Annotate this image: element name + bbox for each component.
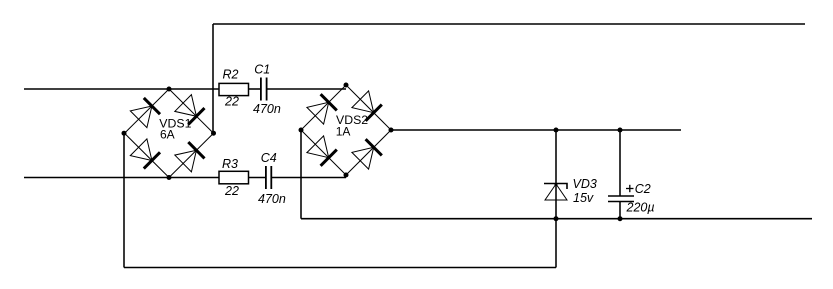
svg-text:22: 22 — [224, 95, 239, 109]
diode VDS1.D4 (bottom to right arm) — [175, 142, 205, 172]
wire: R3 to C4 — [249, 177, 266, 179]
node: VDS2 left (DC minus) — [299, 128, 304, 133]
wire: VD3 branch vertical (output rail to bottom rail) — [555, 130, 557, 268]
svg-text:470n: 470n — [258, 192, 286, 206]
diode VDS1.D3 (left to bottom arm) — [130, 139, 160, 169]
svg-text:6A: 6A — [160, 128, 175, 142]
junction: VD3 bottom on negative rail — [554, 216, 559, 221]
bridge rectifier VDS2 diamond edge: left-bottom — [301, 130, 346, 175]
wire: C2 top lead — [619, 130, 621, 196]
wire: VDS1 left node down — [123, 133, 125, 267]
diode VDS2.D3 (left to bottom arm) — [307, 136, 337, 166]
wire: C1 to VDS2 top node — [267, 88, 346, 90]
bridge rectifier VDS1 diamond edge: left-bottom — [125, 133, 170, 177]
wire: VDS1 top node to R2 — [169, 88, 219, 90]
bridge rectifier VDS2 diamond edge: top-right — [346, 85, 391, 130]
bridge rectifier VDS1 diamond edge: left-top — [125, 89, 170, 133]
diode VDS2.D4 (bottom to right arm) — [352, 139, 382, 169]
wire: drop from top rail to VDS1 right node — [212, 24, 214, 133]
capacitor C4 — [266, 166, 271, 189]
diode VDS1.D2 (top to right arm) — [175, 95, 205, 125]
junction: C2 top on positive rail — [618, 128, 623, 133]
bridge rectifier VDS1 diamond edge: top-right — [169, 89, 214, 133]
wire: R2 to C1 — [249, 88, 261, 90]
resistor R2 — [219, 83, 249, 95]
svg-text:1A: 1A — [336, 125, 351, 139]
wire: VDS1 bottom node to R3 — [169, 177, 219, 179]
svg-text:470n: 470n — [253, 102, 281, 116]
bridge rectifier VDS2 diamond edge: bottom-right — [346, 130, 391, 175]
wire: C2 bottom lead — [619, 202, 621, 219]
diode VDS2.D2 (top to right arm) — [352, 91, 382, 121]
node: VDS1 right (DC plus) — [211, 131, 216, 136]
C2 polarity plus sign — [626, 185, 634, 192]
node: VDS1 top (AC input 1) — [167, 87, 172, 92]
zener diode VD3 — [544, 184, 567, 201]
node: VDS2 right (DC plus) — [389, 128, 394, 133]
svg-text:C1: C1 — [254, 63, 270, 77]
wire: positive output rail — [391, 129, 681, 131]
diode VDS1.D1 (left to top arm) — [130, 98, 160, 128]
bridge rectifier VDS1 diamond edge: bottom-right — [169, 133, 214, 177]
junction: C2 bottom on negative rail — [618, 216, 623, 221]
wire: AC input 2 (left to VDS1 bottom node) — [24, 177, 169, 179]
svg-text:R2: R2 — [223, 68, 239, 82]
svg-text:C4: C4 — [261, 151, 277, 165]
svg-text:22: 22 — [224, 184, 239, 198]
node: VDS1 bottom (AC input 2) — [167, 175, 172, 180]
svg-text:VD3: VD3 — [573, 177, 597, 191]
bridge rectifier VDS2 diamond edge: left-top — [301, 85, 346, 130]
junction: VD3 top on positive rail — [554, 128, 559, 133]
node: VDS2 top (AC input) — [344, 83, 349, 88]
svg-text:C2: C2 — [635, 182, 651, 196]
wire: negative output rail — [301, 218, 812, 220]
capacitor C1 — [261, 78, 267, 101]
wire: top output rail — [213, 23, 805, 25]
svg-text:220µ: 220µ — [626, 201, 655, 215]
wire: VDS2 left node down — [300, 130, 302, 219]
electrolytic capacitor C2 — [608, 196, 634, 202]
svg-text:15v: 15v — [573, 191, 594, 205]
svg-text:R3: R3 — [222, 157, 238, 171]
resistor R3 — [219, 171, 249, 184]
wire: C4 to VDS2 bottom node — [272, 177, 346, 179]
node: VDS2 bottom (AC input) — [344, 173, 349, 178]
diode VDS2.D1 (left to top arm) — [307, 94, 337, 124]
wire: bottom return rail — [124, 267, 556, 269]
wire: AC input 1 (left to VDS1 top node) — [24, 88, 169, 90]
node: VDS1 left (DC minus) — [122, 131, 127, 136]
